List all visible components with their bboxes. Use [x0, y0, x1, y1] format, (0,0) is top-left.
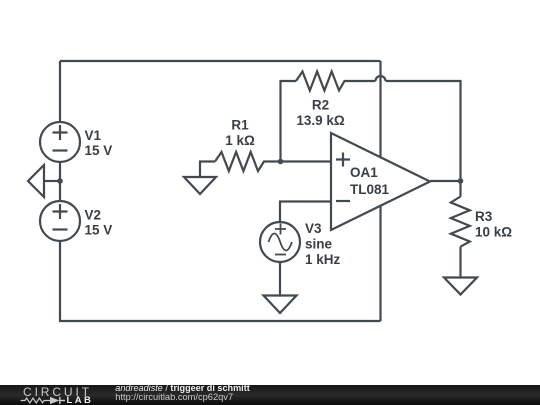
svg-text:V1: V1: [85, 128, 102, 143]
svg-text:15 V: 15 V: [85, 223, 113, 238]
svg-text:TL081: TL081: [350, 182, 390, 197]
svg-text:10 kΩ: 10 kΩ: [475, 225, 512, 240]
svg-text:R1: R1: [231, 118, 249, 133]
svg-text:V3: V3: [305, 221, 322, 236]
svg-text:13.9 kΩ: 13.9 kΩ: [296, 113, 345, 128]
svg-text:R3: R3: [475, 209, 493, 224]
svg-text:OA1: OA1: [350, 165, 378, 180]
svg-text:R2: R2: [312, 97, 329, 112]
svg-text:V2: V2: [85, 208, 102, 223]
svg-text:sine: sine: [305, 237, 333, 252]
svg-text:1 kΩ: 1 kΩ: [225, 133, 255, 148]
svg-text:1 kHz: 1 kHz: [305, 252, 341, 267]
svg-text:15 V: 15 V: [85, 143, 113, 158]
